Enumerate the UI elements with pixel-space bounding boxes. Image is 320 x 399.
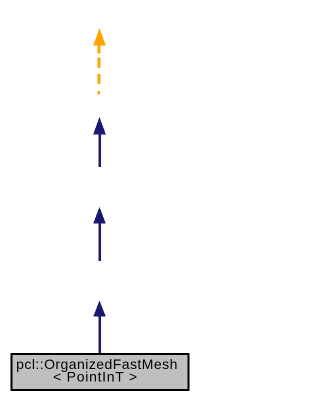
blue line 2 xyxy=(98,222,101,261)
orange dashed line seg2 xyxy=(98,58,101,69)
blue inheritance arrowhead 1 (bottom) xyxy=(93,301,106,317)
blue line 1 xyxy=(98,315,101,353)
blue inheritance arrowhead 3 (top) xyxy=(93,117,106,134)
blue line 3 xyxy=(98,133,101,167)
blue inheritance arrowhead 2 (middle) xyxy=(93,207,106,224)
node pcl::OrganizedFastMesh box xyxy=(12,354,189,390)
orange dashed line seg1 xyxy=(98,44,101,54)
orange dashed line seg4 (partial) xyxy=(98,91,101,95)
orange template-instance arrowhead xyxy=(93,28,106,45)
orange dashed line seg3 xyxy=(98,74,101,84)
svg-text:< PointInT >: < PointInT > xyxy=(53,368,138,384)
